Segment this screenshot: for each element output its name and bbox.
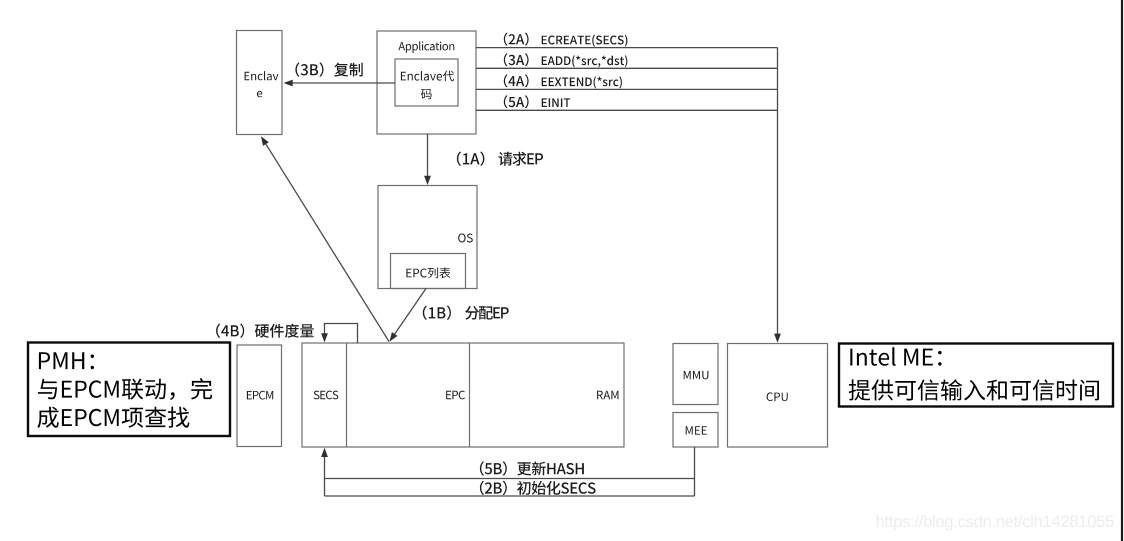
page right border xyxy=(1121,0,1123,541)
box MMU xyxy=(673,344,718,405)
label CPU xyxy=(767,392,788,401)
box memory SECS/EPC/RAM xyxy=(302,343,624,447)
wire (5A) horizontal xyxy=(476,109,778,111)
label EPC xyxy=(446,391,465,400)
label Intel ME line1 xyxy=(850,347,941,366)
arrowhead into Enclave right edge xyxy=(284,80,293,87)
label (4B) hardware measure xyxy=(216,324,314,338)
wire diagonal EPC-list to EPC xyxy=(390,289,426,341)
wire diagonal EPC to Enclave xyxy=(262,138,389,341)
divider EPC|RAM xyxy=(469,343,471,447)
wire vertical up into SECS bottom xyxy=(324,450,326,496)
wire (5B) horizontal xyxy=(325,478,695,480)
watermark xyxy=(877,515,1114,530)
label Enclave-code line2 xyxy=(421,89,432,99)
arrowhead into CPU top xyxy=(774,334,781,343)
callout PMH (thick border) xyxy=(28,343,230,437)
label SECS xyxy=(314,391,339,400)
label Application xyxy=(398,41,454,53)
label (1A) request EP xyxy=(457,152,543,166)
arrowhead into SECS bottom xyxy=(321,448,328,457)
label EPC-list xyxy=(406,267,450,278)
label PMH line1 xyxy=(39,352,94,369)
divider SECS|EPC xyxy=(346,343,348,447)
box Application xyxy=(377,31,476,134)
arrowhead self-loop into SECS top xyxy=(321,333,328,342)
arrowhead into OS top xyxy=(424,176,431,185)
label (2A) ECREATE(SECS) xyxy=(504,33,628,47)
label Enclave-code line1 xyxy=(401,71,454,82)
box OS xyxy=(378,186,477,289)
label OS xyxy=(458,234,473,243)
wire (2A) horizontal xyxy=(476,47,778,49)
box CPU xyxy=(728,344,828,448)
box MEE xyxy=(673,413,718,448)
box EPC-list xyxy=(391,254,466,289)
label RAM xyxy=(597,391,618,399)
wire (4A) horizontal xyxy=(476,88,778,90)
label (1B) allocate EP xyxy=(423,306,509,320)
box Enclave-code (inner) xyxy=(395,59,458,106)
label MMU xyxy=(684,371,709,380)
label (5B) update HASH xyxy=(480,461,584,475)
box EPCM xyxy=(237,345,282,447)
label Intel ME line2 xyxy=(849,379,1099,400)
callout Intel ME (thick border) xyxy=(839,344,1113,407)
wire (3A) horizontal xyxy=(476,67,778,69)
arrowhead into Enclave bottom xyxy=(261,136,269,146)
label (2B) init SECS xyxy=(480,481,596,495)
label (4A) EEXTEND xyxy=(504,74,622,88)
label Enclave line2 xyxy=(257,91,262,97)
arrowhead into memory box top xyxy=(390,332,398,342)
wire MEE down xyxy=(694,447,696,496)
label Enclave line1 xyxy=(245,71,279,80)
wire Application to OS xyxy=(427,134,429,183)
label PMH line3 xyxy=(37,407,189,428)
label (3A) EADD xyxy=(504,53,628,67)
wire (4B) self-loop on SECS xyxy=(325,324,358,344)
wire trunk down to CPU xyxy=(777,48,779,341)
wire (3B) copy to Enclave xyxy=(290,82,395,84)
label (5A) EINIT xyxy=(504,95,570,108)
label (3B) copy xyxy=(295,62,362,76)
label EPCM xyxy=(247,391,273,400)
box Enclave xyxy=(237,31,283,135)
wire (2B) horizontal xyxy=(325,495,695,497)
label PMH line2 xyxy=(38,378,212,400)
label MEE xyxy=(686,426,707,434)
